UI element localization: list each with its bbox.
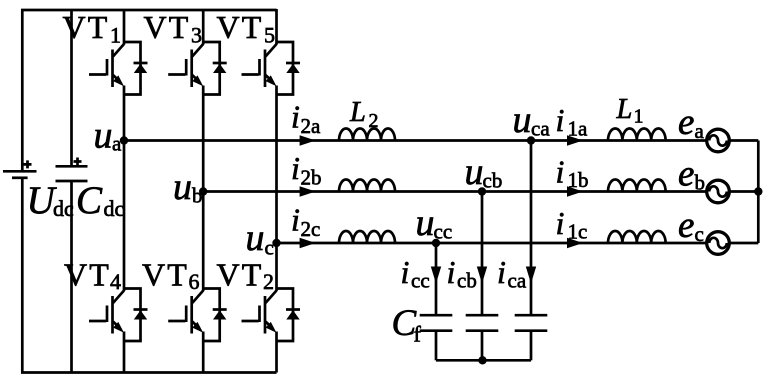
node uc junction dot — [272, 239, 280, 247]
Cdc plus sign — [74, 158, 82, 166]
svg-text:2c: 2c — [301, 217, 321, 241]
svg-text:4: 4 — [110, 269, 121, 294]
current arrow i1a — [567, 135, 583, 145]
svg-text:2b: 2b — [301, 166, 322, 190]
svg-text:i: i — [291, 150, 300, 186]
svg-text:dc: dc — [104, 196, 125, 221]
svg-text:cb: cb — [457, 269, 477, 293]
wire leg a upper (collector VT1) — [123, 10, 126, 45]
svg-text:b: b — [695, 171, 706, 195]
wire Cdc branch lower — [70, 181, 73, 373]
label i1c — [556, 205, 588, 244]
wire phase b line — [203, 190, 706, 193]
wire below capacitor b — [481, 331, 484, 361]
label eb — [678, 154, 705, 195]
svg-text:i: i — [447, 254, 456, 290]
transistor VT4 (IGBT with antiparallel diode) — [89, 289, 148, 342]
transistor VT5 (IGBT with antiparallel diode) — [242, 42, 301, 95]
svg-text:5: 5 — [264, 23, 275, 48]
svg-text:i: i — [556, 205, 565, 241]
inductor L2 phase a — [339, 129, 395, 141]
capacitor Cf phase b — [466, 315, 499, 331]
svg-text:VT: VT — [64, 257, 111, 293]
AC source ea — [707, 129, 730, 152]
AC source ec — [707, 232, 730, 255]
wire ec to grid bus — [730, 242, 758, 245]
inductor L1 phase a — [608, 129, 666, 141]
inductor L2 phase c — [339, 231, 395, 243]
current arrow i2c — [300, 238, 316, 248]
wire leg b lower (emitter VT6) — [202, 332, 205, 373]
svg-text:u: u — [173, 166, 192, 208]
svg-text:a: a — [695, 119, 705, 143]
svg-text:i: i — [291, 202, 300, 238]
wire below capacitor a — [530, 331, 533, 361]
inductor L2 phase b — [339, 180, 395, 192]
inductor L1 phase b — [608, 180, 666, 192]
grid neutral junction dot — [754, 187, 762, 195]
label ub — [173, 166, 203, 208]
label i1a — [556, 102, 589, 141]
svg-text:u: u — [465, 151, 484, 193]
transistor VT2 (IGBT with antiparallel diode) — [242, 289, 301, 342]
svg-text:e: e — [678, 154, 694, 195]
current arrow i1c — [567, 238, 583, 248]
wire below capacitor c — [435, 331, 438, 361]
transistor VT6 (IGBT with antiparallel diode) — [168, 289, 227, 342]
svg-text:VT: VT — [217, 9, 264, 45]
svg-text:2: 2 — [263, 269, 274, 294]
current arrow icb (downward) — [477, 267, 487, 284]
wire leg c lower (emitter VT2) — [275, 332, 278, 373]
svg-text:C: C — [76, 179, 103, 222]
wire leg c upper (collector VT5) — [275, 9, 278, 45]
label VT5 — [217, 9, 276, 48]
node ua junction dot — [120, 136, 128, 144]
wire grid neutral bus — [757, 141, 760, 244]
label uc — [246, 217, 274, 260]
node uca junction dot — [527, 136, 535, 144]
svg-text:1c: 1c — [568, 220, 588, 244]
current arrow i2a — [300, 135, 316, 145]
wire phase a line — [124, 139, 706, 142]
svg-text:1a: 1a — [568, 117, 589, 141]
label i2b — [291, 150, 322, 190]
label ucb — [465, 151, 503, 193]
node ucb junction dot — [478, 187, 486, 195]
svg-text:u: u — [513, 99, 532, 141]
label VT4 — [64, 257, 121, 295]
filter neutral junction dot — [478, 356, 486, 364]
svg-text:b: b — [192, 184, 203, 208]
label i2a — [291, 99, 321, 139]
label VT6 — [142, 257, 200, 295]
transistor VT1 (IGBT with antiparallel diode) — [89, 42, 148, 95]
wire ea to grid bus — [730, 139, 758, 142]
label i1b — [556, 154, 589, 193]
battery Udc — [3, 171, 37, 178]
label uca — [513, 99, 551, 141]
wire leg a middle — [123, 86, 126, 292]
wire filter branch from ucb down — [481, 192, 484, 316]
svg-text:VT: VT — [142, 257, 189, 293]
label VT3 — [144, 9, 203, 48]
battery plus sign — [24, 160, 32, 168]
node ucc junction dot — [432, 239, 440, 247]
wire filter neutral bus — [436, 359, 531, 362]
wire filter branch from ucc down — [435, 243, 438, 315]
svg-text:VT: VT — [217, 257, 264, 293]
label Udc — [27, 179, 75, 222]
label ea — [678, 102, 705, 143]
inductor L1 phase c — [608, 231, 666, 243]
wire leg c middle — [275, 86, 278, 292]
wire eb to grid bus — [730, 190, 758, 193]
svg-text:VT: VT — [144, 9, 191, 45]
wire leg b middle — [202, 86, 205, 292]
svg-text:1: 1 — [110, 23, 121, 48]
wire left DC rail lower segment — [21, 178, 24, 373]
wire bottom DC bus — [21, 371, 277, 374]
svg-text:i: i — [556, 154, 565, 190]
svg-text:i: i — [497, 254, 506, 290]
capacitor Cdc — [56, 166, 88, 181]
current arrow i2b — [300, 186, 316, 196]
current arrow ica (downward) — [526, 267, 536, 284]
svg-text:i: i — [291, 99, 300, 135]
svg-text:e: e — [678, 102, 694, 143]
wire leg b upper (collector VT3) — [202, 10, 205, 45]
AC source eb — [707, 180, 730, 203]
svg-text:ca: ca — [508, 269, 527, 293]
capacitor Cf phase a — [515, 315, 548, 331]
capacitor Cf phase c — [420, 315, 453, 331]
label L1 — [616, 94, 644, 128]
svg-text:cc: cc — [411, 269, 430, 293]
svg-text:i: i — [556, 102, 565, 138]
label VT1 — [63, 9, 122, 48]
svg-text:2a: 2a — [301, 114, 322, 138]
current arrow i1b — [567, 186, 583, 196]
label VT2 — [217, 257, 275, 295]
label ua — [94, 115, 123, 157]
label i2c — [291, 202, 320, 242]
svg-text:2: 2 — [369, 110, 379, 132]
wire filter branch from uca down — [530, 141, 533, 316]
svg-text:L: L — [349, 97, 366, 128]
svg-text:cc: cc — [434, 220, 453, 244]
wire left DC rail upper segment — [21, 9, 24, 170]
svg-text:c: c — [695, 222, 704, 246]
label ica — [497, 254, 527, 293]
svg-text:cb: cb — [483, 169, 503, 193]
svg-text:a: a — [112, 132, 122, 156]
svg-text:u: u — [416, 202, 435, 244]
label ec — [678, 205, 704, 246]
svg-text:i: i — [401, 254, 410, 290]
label icb — [447, 254, 477, 293]
transistor VT3 (IGBT with antiparallel diode) — [168, 42, 227, 95]
current arrow icc (downward) — [431, 267, 441, 284]
wire phase c line — [277, 242, 707, 245]
svg-text:1b: 1b — [568, 168, 589, 192]
label icc — [401, 254, 430, 293]
svg-text:3: 3 — [191, 23, 202, 48]
svg-text:6: 6 — [189, 269, 200, 294]
svg-text:ca: ca — [531, 117, 550, 141]
wire Cdc branch upper — [70, 10, 73, 166]
svg-text:f: f — [414, 322, 422, 347]
label Cdc — [76, 179, 125, 222]
svg-text:L: L — [616, 94, 633, 125]
label Cf — [392, 303, 422, 347]
svg-text:VT: VT — [63, 9, 110, 45]
wire leg a lower (emitter VT4) — [123, 332, 126, 373]
label L2 — [349, 97, 379, 132]
label ucc — [416, 202, 453, 244]
svg-text:c: c — [265, 236, 274, 260]
svg-text:e: e — [678, 205, 694, 246]
node ub junction dot — [199, 187, 207, 195]
svg-text:u: u — [94, 115, 113, 157]
svg-text:1: 1 — [634, 106, 644, 128]
wire top DC bus — [21, 9, 277, 12]
svg-text:u: u — [246, 217, 265, 259]
